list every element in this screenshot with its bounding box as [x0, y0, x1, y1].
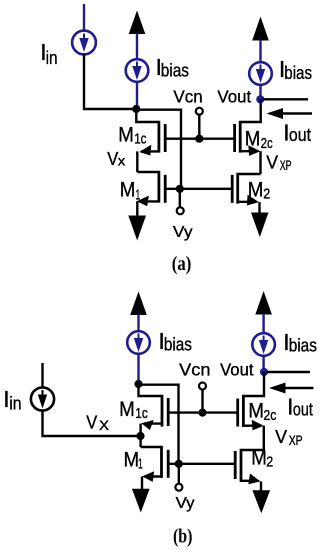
ground left (b) — [132, 489, 150, 513]
terminal Vy (b) — [178, 464, 180, 484]
svg-text:(a): (a) — [172, 253, 192, 275]
transistor M2 (a) — [232, 173, 260, 213]
svg-text:out: out — [293, 399, 313, 420]
wire bias upper (a) — [136, 33, 138, 60]
svg-text:Vy: Vy — [176, 495, 195, 512]
wire bias upper right (a) — [259, 40, 261, 63]
node Vout (a) — [256, 95, 264, 103]
svg-text:V: V — [266, 152, 278, 173]
node Vcn junction (b) — [198, 409, 206, 417]
svg-text:M: M — [248, 178, 264, 201]
terminal Vcn (a) — [196, 108, 203, 115]
terminal Vcn (b) — [199, 383, 206, 390]
svg-text:2c: 2c — [263, 408, 276, 424]
svg-text:1c: 1c — [134, 131, 146, 147]
svg-text:1: 1 — [138, 457, 143, 473]
current arrow I_out (a) — [267, 108, 313, 119]
svg-text:V: V — [86, 413, 97, 433]
svg-text:XP: XP — [280, 158, 292, 173]
VDD arrow left (b) — [130, 292, 147, 316]
svg-text:M: M — [245, 128, 261, 151]
wire bias lower right (a) — [259, 85, 261, 100]
svg-text:Vout: Vout — [220, 360, 254, 380]
current source I_bias left (b) — [127, 331, 150, 354]
wire Vout to right (b) — [267, 371, 311, 373]
ground right (b) — [252, 490, 270, 513]
wire bottom gate rail (a) — [165, 188, 232, 190]
wire cascode gate rail Vcn (a) — [165, 137, 235, 139]
current source I_in (b) — [31, 387, 54, 410]
node Vy junction (a) — [176, 185, 184, 193]
svg-text:M: M — [118, 123, 134, 146]
current source I_in (a) — [72, 31, 96, 55]
VDD arrow right (b) — [255, 291, 272, 315]
svg-text:out: out — [289, 124, 311, 145]
svg-text:1c: 1c — [135, 406, 148, 422]
wire bias upper left (b) — [137, 314, 139, 332]
svg-text:bias: bias — [284, 62, 312, 83]
ground left (a) — [128, 216, 146, 241]
svg-text:1: 1 — [136, 188, 141, 204]
node Vx junction (b) — [136, 432, 144, 440]
current source I_bias right (a) — [249, 62, 272, 85]
svg-text:M: M — [119, 398, 135, 421]
node dot top-left (a) — [132, 105, 140, 113]
wire bias lower (a) — [136, 82, 138, 109]
svg-text:M: M — [248, 400, 264, 423]
VDD arrow right (a) — [252, 17, 269, 41]
wire bias upper right (b) — [262, 314, 264, 334]
svg-text:X: X — [99, 418, 109, 433]
svg-text:V: V — [275, 426, 288, 447]
svg-text:in: in — [46, 47, 58, 68]
wire I_in to Vx node (b) — [43, 410, 141, 436]
svg-text:Vy: Vy — [173, 224, 193, 241]
node Vy junction (b) — [175, 460, 183, 468]
ground right (a) — [251, 213, 269, 238]
current arrow I_out (b) — [269, 383, 314, 394]
svg-text:2: 2 — [263, 187, 270, 203]
transistor M1c (b) — [139, 384, 169, 447]
svg-text:2: 2 — [266, 455, 273, 471]
svg-text:in: in — [9, 393, 21, 414]
current source I_bias left (a) — [126, 59, 149, 82]
wire I_in to node (a) — [84, 54, 136, 109]
svg-text:Vout: Vout — [217, 86, 251, 106]
wire bottom gate rail (b) — [168, 463, 235, 465]
transistor M1 (a) — [137, 171, 166, 216]
wire Vout to right (a) — [263, 98, 308, 100]
svg-text:2c: 2c — [261, 136, 273, 152]
wire diode connection (a) — [136, 110, 181, 189]
wire I_in top lead (a) — [83, 4, 85, 31]
wire bias lower right (b) — [262, 356, 264, 372]
node dot top-left (b) — [134, 380, 142, 388]
wire diode connection (b) — [139, 385, 179, 464]
transistor M2c (b) — [238, 372, 264, 450]
svg-text:M: M — [251, 447, 267, 470]
wire cascode gate rail Vcn (b) — [168, 411, 238, 413]
terminal Vy (a) — [179, 189, 181, 207]
node Vcn junction (a) — [195, 135, 203, 143]
svg-text:XP: XP — [289, 433, 303, 448]
svg-text:V: V — [107, 149, 118, 169]
svg-text:(b): (b) — [173, 526, 193, 548]
svg-text:M: M — [120, 179, 136, 202]
svg-text:x: x — [118, 154, 126, 169]
transistor M2c (a) — [235, 99, 261, 174]
VDD arrow left (a) — [129, 11, 146, 35]
svg-text:Vcn: Vcn — [179, 360, 210, 380]
transistor M1c (a) — [136, 109, 165, 172]
current source I_bias right (b) — [252, 333, 275, 356]
svg-text:bias: bias — [161, 60, 189, 81]
svg-text:bias: bias — [289, 335, 317, 356]
wire I_in top lead (b) — [41, 363, 43, 388]
transistor M1 (b) — [141, 446, 169, 489]
svg-text:bias: bias — [164, 334, 192, 355]
svg-text:M: M — [124, 449, 140, 472]
svg-text:Vcn: Vcn — [173, 86, 202, 106]
transistor M2 (b) — [235, 449, 264, 491]
wire bias lower left (b) — [137, 354, 139, 384]
node Vout (b) — [260, 368, 268, 376]
